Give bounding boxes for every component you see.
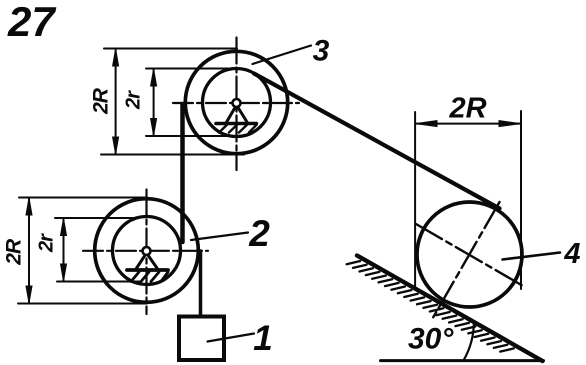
dimension 2R of pulley 2: top arrowhead bbox=[26, 198, 32, 215]
dimension 2r of pulley 3: dimension line bbox=[153, 69, 155, 137]
dimension 2R of roller 4: dimension line bbox=[415, 123, 521, 125]
ground baseline bbox=[381, 359, 544, 362]
svg-text:30°: 30° bbox=[408, 323, 454, 356]
pulley 3 support hatching bbox=[219, 125, 257, 133]
pulley 3 support triangle bbox=[226, 105, 247, 123]
dimension 2R of pulley 2: bottom arrowhead bbox=[26, 286, 32, 303]
pulley 2 pin bbox=[143, 247, 151, 255]
leader line of label 4 bbox=[503, 253, 561, 260]
pulley 3 pin bbox=[233, 99, 241, 107]
roller 4 perpendicular centerline bbox=[433, 202, 500, 319]
svg-text:2R: 2R bbox=[448, 93, 486, 125]
weight 1 (hanging block) bbox=[179, 317, 224, 361]
pulley 3 vertical centerline bbox=[235, 38, 237, 171]
dimension 2R of roller 4: right arrowhead bbox=[499, 121, 521, 127]
dimension 2r of pulley 2: top extension line bbox=[55, 217, 138, 219]
dimension 2R of roller 4: left arrowhead bbox=[416, 121, 437, 127]
dimension 2R of pulley 3: top extension line bbox=[104, 48, 237, 50]
dimension 2R of pulley 3: bottom arrowhead bbox=[113, 137, 119, 154]
pulley 3 inner circle bbox=[203, 69, 271, 137]
svg-text:2r: 2r bbox=[36, 233, 58, 253]
roller 4 inclined centerline (parallel to slope) bbox=[416, 224, 524, 287]
leader line of label 3 bbox=[253, 46, 312, 65]
inclined plane hatching bbox=[347, 261, 514, 352]
dimension 2r of pulley 3: bottom extension line bbox=[146, 135, 230, 137]
dimension 2R of roller 4: right extension line bbox=[520, 111, 522, 289]
pulley 2 horizontal centerline bbox=[83, 250, 208, 252]
dimension 2R of pulley 3: top arrowhead bbox=[113, 49, 119, 66]
inclined plane surface bbox=[357, 256, 543, 362]
pulley 3 horizontal centerline bbox=[173, 102, 299, 104]
rope from pulley 2 to weight 1 bbox=[199, 251, 203, 316]
svg-text:27: 27 bbox=[7, 0, 56, 45]
dimension 2R of pulley 2: top extension line bbox=[19, 197, 147, 199]
pulley 2 support base bbox=[127, 268, 168, 272]
roller 4 circle bbox=[417, 202, 522, 307]
dimension 2R of pulley 2: dimension line bbox=[28, 198, 30, 304]
leader line of label 1 bbox=[208, 334, 255, 342]
pulley 2 support hatching bbox=[131, 272, 168, 282]
pulley 2 vertical centerline bbox=[145, 190, 147, 315]
svg-text:1: 1 bbox=[253, 319, 272, 358]
pulley 2 support triangle bbox=[136, 253, 157, 269]
dimension 2R of roller 4: left extension line bbox=[414, 112, 416, 290]
dimension 2r of pulley 3: bottom arrowhead bbox=[151, 119, 157, 136]
leader line of label 2 bbox=[191, 233, 248, 241]
pulley 2 inner circle bbox=[113, 217, 181, 285]
dimension 2r of pulley 2: bottom extension line bbox=[57, 281, 141, 283]
dimension 2r of pulley 2: dimension line bbox=[63, 218, 65, 282]
dimension 2R of pulley 3: dimension line bbox=[115, 49, 117, 155]
rope from pulley 3 down to pulley 2 bbox=[180, 104, 185, 242]
dimension 2r of pulley 2: bottom arrowhead bbox=[61, 264, 67, 281]
pulley 3 outer circle bbox=[185, 51, 287, 153]
svg-text:2r: 2r bbox=[123, 90, 145, 110]
svg-text:4: 4 bbox=[563, 238, 580, 270]
svg-text:2: 2 bbox=[248, 213, 270, 254]
rope from pulley 3 to roller 4 bbox=[254, 74, 500, 209]
dimension 2R of pulley 2: bottom extension line bbox=[18, 303, 147, 305]
svg-text:3: 3 bbox=[313, 35, 330, 68]
dimension 2r of pulley 3: top arrowhead bbox=[151, 69, 157, 86]
dimension 2r of pulley 2: top arrowhead bbox=[61, 219, 67, 236]
svg-text:2R: 2R bbox=[3, 238, 26, 266]
dimension 2R of pulley 3: bottom extension line bbox=[101, 154, 244, 156]
pulley 2 outer circle bbox=[95, 199, 199, 303]
pulley 3 support base bbox=[216, 122, 257, 126]
30 degree angle arc bbox=[464, 322, 474, 361]
dimension 2r of pulley 3: top extension line bbox=[146, 68, 228, 70]
svg-text:2R: 2R bbox=[90, 87, 113, 115]
